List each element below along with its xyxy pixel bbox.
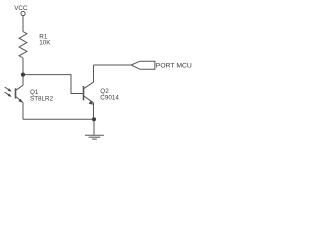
svg-text:ST8LR2: ST8LR2 [30,96,54,103]
svg-text:VCC: VCC [14,5,28,12]
svg-text:C9014: C9014 [100,94,119,101]
svg-text:PORT MCU: PORT MCU [156,62,192,69]
svg-text:10K: 10K [39,40,51,47]
